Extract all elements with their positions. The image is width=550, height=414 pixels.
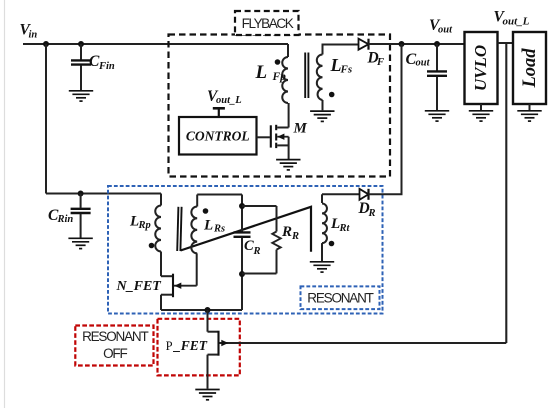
node Vin label [20, 22, 38, 41]
block Load [513, 32, 546, 104]
wire NFET source rail [161, 309, 242, 311]
svg-text:R: R [291, 231, 299, 242]
svg-text:Load: Load [520, 48, 540, 89]
wire CR vertical top [241, 195, 243, 232]
ground Cout [425, 111, 449, 121]
CR label [244, 238, 261, 257]
inductor LFs [317, 45, 323, 111]
inductor LFp [282, 44, 288, 103]
wire DR return vertical [401, 44, 403, 194]
capacitor CR [234, 232, 251, 310]
transistor M [271, 103, 289, 159]
svg-text:P: P [166, 339, 173, 353]
wire CONTROL gate [257, 136, 270, 138]
RR label [281, 224, 299, 242]
resistor RR [272, 206, 280, 274]
node junction dot PFET branch [205, 307, 211, 313]
svg-text:L: L [255, 62, 268, 83]
wire LRs top to CR [197, 194, 242, 196]
transistor N_FET [161, 252, 197, 311]
svg-text:Fp: Fp [272, 71, 287, 83]
Cout label [406, 51, 431, 69]
node junction dot CR bottom [239, 271, 245, 277]
svg-text:RESONANT: RESONANT [82, 329, 148, 344]
svg-text:out_L: out_L [216, 95, 242, 106]
wire DF to UVLO [369, 43, 465, 45]
node Vout_L label top right [494, 9, 530, 28]
svg-text:out: out [416, 58, 431, 69]
svg-text:Rt: Rt [339, 223, 351, 234]
LFp label [255, 62, 287, 83]
FLYBACK outer dashed box [169, 35, 391, 177]
inductor LRs [191, 195, 197, 254]
LRs polarity dot [203, 208, 209, 214]
ground UVLO [469, 104, 493, 121]
ground CFin [69, 91, 93, 101]
svg-text:out_L: out_L [503, 15, 530, 27]
RESONANT outer dashed box (blue) [108, 186, 383, 314]
svg-text:Rp: Rp [138, 220, 151, 231]
wire UVLO to Load [498, 42, 514, 44]
svg-text:RESONANT: RESONANT [307, 291, 373, 306]
transistor P_FET [208, 310, 507, 389]
svg-text:R: R [368, 208, 376, 219]
capacitor CFin [71, 44, 91, 90]
CRin label [48, 207, 73, 225]
ground CRin [68, 238, 92, 248]
svg-text:Fs: Fs [340, 64, 353, 76]
node junction dot CR top [239, 203, 245, 209]
node junction dot DR return on rail [399, 41, 405, 47]
wire LFs to DF [322, 44, 359, 46]
DR label [358, 200, 376, 219]
svg-text:UVLO: UVLO [471, 45, 490, 91]
LRp label [129, 214, 151, 231]
LFp polarity dot [275, 59, 281, 65]
svg-text:M: M [293, 121, 308, 137]
svg-text:_FET: _FET [172, 338, 208, 353]
capacitor CRin [71, 194, 91, 238]
switch blade diagonal [181, 207, 312, 252]
RESONANT OFF dashed box (red) [75, 326, 153, 366]
svg-text:R: R [253, 246, 261, 257]
wire DR cathode to vertical [369, 193, 403, 195]
svg-text:CONTROL: CONTROL [186, 129, 250, 144]
FLYBACK label box [235, 11, 299, 35]
P_FET dashed box (red) [158, 319, 240, 376]
LRp polarity dot [149, 243, 155, 249]
ground Load [517, 104, 541, 121]
svg-text:out: out [438, 25, 453, 36]
wire left branch vertical [45, 44, 47, 194]
wire RR top branch [242, 205, 277, 207]
ground LRt [310, 262, 334, 272]
node junction dot Cout [434, 41, 440, 47]
svg-text:Rs: Rs [213, 224, 225, 235]
CONTROL box [179, 117, 257, 155]
ground LFs [310, 111, 334, 121]
node junction dot left branch [43, 41, 49, 47]
LRt polarity dot [329, 241, 335, 247]
LRs label [203, 217, 225, 234]
antenna Vout_L above CONTROL [213, 108, 225, 117]
svg-text:C: C [244, 238, 254, 254]
block UVLO [465, 32, 498, 104]
svg-text:N_FET: N_FET [116, 279, 163, 294]
node Vout label [429, 17, 453, 36]
transformer core resonant (slanted) [177, 207, 181, 251]
ground M [276, 160, 300, 170]
svg-text:FLYBACK: FLYBACK [242, 16, 294, 31]
wire Vout_L feedback vertical [505, 43, 507, 343]
figure left border (faint) [4, 0, 6, 408]
wire Vin top rail [23, 43, 288, 45]
svg-text:F: F [376, 57, 384, 68]
RESONANT label box (blue) [301, 286, 380, 309]
inductor LRp [155, 194, 161, 252]
diode DF [359, 39, 369, 50]
wire RR bottom branch [242, 273, 277, 275]
LFs label [330, 55, 353, 76]
svg-text:in: in [29, 29, 38, 40]
svg-text:R: R [281, 224, 292, 240]
svg-text:L: L [203, 217, 213, 233]
wire LRt top to DR [322, 193, 360, 195]
transformer core flyback [305, 53, 308, 99]
ground P_FET [195, 390, 219, 400]
diode DR [360, 189, 369, 200]
DF label [367, 49, 385, 68]
capacitor Cout [427, 44, 447, 110]
node junction dot CFin [78, 41, 84, 47]
node junction dot CRin [78, 191, 84, 197]
svg-text:Fin: Fin [98, 61, 115, 72]
LRt label [330, 216, 351, 234]
Vout_L label above CONTROL [207, 88, 242, 106]
CFin label [89, 53, 115, 72]
LFs polarity dot [329, 92, 335, 98]
inductor LRt [322, 194, 327, 261]
svg-text:OFF: OFF [103, 346, 127, 361]
svg-text:Rin: Rin [57, 214, 74, 225]
wire CRin branch horizontal [46, 193, 161, 195]
